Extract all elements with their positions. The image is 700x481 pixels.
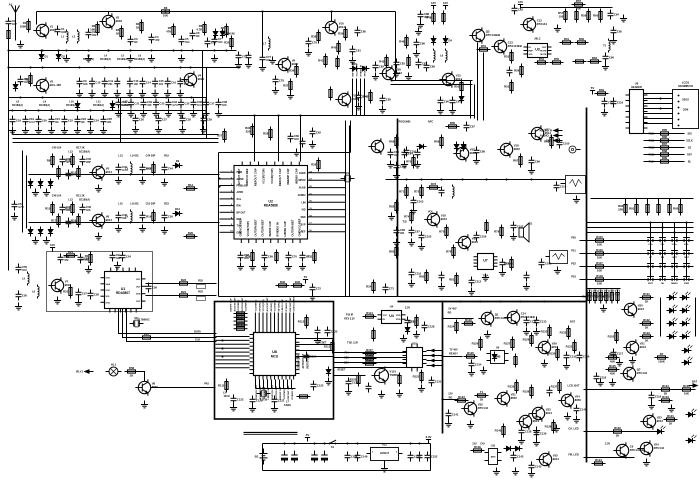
svg-text:BAT: BAT — [692, 380, 698, 384]
svg-text:RDA5807: RDA5807 — [116, 291, 130, 295]
wire — [254, 313, 256, 329]
svg-text:VID: VID — [302, 209, 306, 212]
resistor key pullup — [646, 202, 649, 216]
svg-text:10U: 10U — [294, 137, 299, 141]
ground — [602, 63, 609, 70]
capacitor C52 — [310, 284, 322, 294]
capacitor C57 — [260, 54, 272, 64]
svg-text:BC180(A): BC180(A) — [12, 104, 23, 107]
svg-text:C85: C85 — [386, 98, 391, 102]
MCU U8 — [250, 329, 300, 380]
capacitor C82 — [394, 162, 407, 172]
pin labels bottom inside — [239, 218, 302, 236]
ground — [95, 233, 102, 240]
node junction — [486, 179, 488, 181]
svg-text:R130: R130 — [549, 352, 556, 356]
svg-text:R54: R54 — [539, 57, 545, 61]
wire — [443, 318, 474, 320]
power label 3V3 — [605, 442, 611, 446]
wire — [591, 198, 694, 200]
svg-text:DTC144: DTC144 — [654, 446, 665, 450]
transistor Q16 — [497, 141, 520, 157]
resistor R32 — [263, 127, 272, 141]
resistor R128 — [523, 333, 533, 347]
svg-text:R35: R35 — [224, 41, 230, 45]
node junction — [650, 222, 652, 224]
wire — [287, 380, 289, 389]
inductor label L10 — [66, 100, 77, 107]
node junction — [442, 318, 444, 320]
ground — [314, 337, 321, 344]
svg-text:R28: R28 — [263, 132, 269, 136]
wire — [427, 350, 443, 352]
ground — [261, 263, 268, 270]
svg-text:10K: 10K — [597, 256, 602, 260]
svg-text:0.1U: 0.1U — [197, 103, 203, 107]
switch key label — [661, 283, 665, 285]
capacitor midrow — [141, 99, 153, 109]
svg-text:VCOREF(1): VCOREF(1) — [246, 299, 248, 311]
capacitor C109 — [346, 378, 359, 388]
resistor R63 — [593, 9, 602, 23]
wire — [587, 288, 621, 290]
ground — [43, 237, 50, 244]
switch key — [682, 238, 692, 243]
resistor R108 — [680, 384, 694, 396]
node junction — [38, 110, 40, 112]
wire — [206, 68, 208, 139]
node junction — [108, 50, 110, 52]
ground — [410, 207, 417, 214]
node labels P1x — [344, 352, 349, 365]
switch key label — [674, 270, 676, 272]
svg-text:C135: C135 — [570, 355, 577, 359]
svg-text:R59: R59 — [581, 14, 587, 18]
svg-text:AFTOUT DET: AFTOUT DET — [302, 353, 305, 368]
svg-text:SN-MMBC03: SN-MMBC03 — [678, 85, 693, 88]
pin label — [299, 170, 313, 175]
svg-text:X1: X1 — [346, 171, 350, 175]
svg-text:9014: 9014 — [470, 151, 477, 155]
capacitor C30 — [12, 201, 24, 211]
svg-text:R58: R58 — [129, 366, 135, 370]
svg-text:8550: 8550 — [511, 396, 518, 400]
svg-text:C106: C106 — [480, 235, 487, 239]
svg-text:RO: RO — [448, 312, 452, 315]
svg-text:DN: DN — [661, 257, 665, 259]
wire — [263, 380, 265, 389]
capacitor C17 — [177, 78, 189, 88]
svg-text:R52: R52 — [198, 279, 203, 283]
ground — [601, 109, 608, 116]
wire — [256, 388, 296, 390]
resistor R77 — [414, 185, 423, 199]
resistor R127 — [514, 354, 517, 368]
node junction — [433, 365, 435, 367]
node junction — [686, 222, 688, 224]
resistor bias — [47, 154, 54, 168]
svg-text:C129: C129 — [352, 381, 359, 385]
node junction — [278, 115, 280, 117]
resistor R79 — [404, 210, 413, 224]
resistor key pullup — [629, 202, 638, 216]
connector arrow — [431, 364, 435, 367]
wire — [12, 129, 14, 135]
ground — [178, 55, 185, 62]
capacitor C87 — [511, 222, 524, 232]
resistor — [65, 202, 74, 216]
capacitor C62 — [373, 62, 385, 72]
svg-text:BC180(A): BC180(A) — [134, 58, 145, 61]
ground — [132, 126, 139, 133]
resistor R124 — [464, 351, 478, 358]
LED indicator — [667, 331, 678, 339]
resistor R41 — [311, 30, 320, 44]
svg-text:R46: R46 — [399, 40, 405, 44]
svg-text:22P: 22P — [86, 160, 91, 164]
svg-text:R73: R73 — [431, 182, 437, 186]
svg-text:5V: 5V — [304, 275, 308, 279]
resistor network — [234, 316, 248, 323]
resistor R42 — [338, 27, 347, 41]
resistor R48 — [363, 90, 372, 104]
capacitor C4 — [149, 34, 160, 44]
resistor R134 — [475, 390, 489, 402]
ground — [245, 61, 252, 68]
ground — [76, 90, 83, 97]
ground — [573, 416, 580, 423]
resistor key row — [593, 235, 607, 247]
capacitor CE3 — [311, 451, 317, 463]
svg-text:R91: R91 — [629, 207, 635, 211]
svg-text:3.3V: 3.3V — [426, 435, 432, 439]
capacitor C89 — [539, 259, 552, 269]
ground — [272, 87, 279, 94]
svg-text:R72: R72 — [414, 190, 420, 194]
ground — [202, 110, 209, 117]
svg-text:C96: C96 — [609, 56, 614, 60]
svg-text:PWR: PWR — [684, 283, 690, 285]
svg-text:REFOUT CAP: REFOUT CAP — [289, 297, 292, 312]
ground — [85, 55, 92, 62]
wire — [308, 179, 346, 181]
ground — [249, 263, 256, 270]
node junction — [20, 97, 22, 99]
ground — [161, 179, 168, 186]
pin label — [231, 217, 242, 221]
node junction — [442, 399, 444, 401]
pin label — [231, 177, 244, 181]
resistor R52 — [442, 11, 445, 25]
wire — [244, 432, 298, 434]
diode — [28, 227, 33, 237]
capacitor C99 — [649, 392, 662, 402]
wire — [580, 253, 694, 255]
ground — [165, 110, 172, 117]
node label FM_LED — [568, 453, 579, 457]
capacitor C25 — [75, 116, 87, 126]
pin label — [231, 204, 241, 208]
wire — [13, 138, 219, 140]
svg-text:T101 3.3V: T101 3.3V — [347, 342, 358, 345]
ground — [541, 360, 548, 367]
resistor R58 — [550, 57, 564, 64]
svg-text:R40: R40 — [331, 46, 337, 50]
svg-text:DATA: DATA — [194, 330, 201, 334]
svg-text:10K0B: 10K0B — [80, 258, 89, 262]
node junction — [433, 360, 435, 362]
node junction — [42, 67, 44, 69]
capacitor C8 — [18, 76, 31, 86]
node junction — [41, 50, 43, 52]
ground — [408, 239, 415, 246]
svg-text:R51: R51 — [481, 44, 487, 48]
resistor R8 — [221, 24, 228, 38]
wire — [26, 156, 28, 229]
audio amp U7 — [474, 254, 498, 270]
ground — [32, 189, 39, 196]
wire — [29, 174, 220, 176]
pin labels MCU bottom — [256, 384, 294, 399]
ground — [418, 243, 425, 250]
svg-text:R32: R32 — [280, 280, 286, 284]
capacitor C95 — [602, 98, 615, 108]
resistor R87 — [389, 200, 398, 214]
ground — [445, 420, 452, 427]
crystal X1 — [341, 171, 355, 182]
ground — [355, 103, 362, 110]
resistor R37 — [366, 280, 375, 294]
svg-text:REFOUT CAP: REFOUT CAP — [278, 168, 282, 186]
svg-text:4.7K: 4.7K — [196, 28, 202, 32]
LCD module LCD1 — [669, 81, 699, 129]
resistor R130 — [566, 340, 576, 354]
ground — [553, 425, 560, 432]
wire — [216, 355, 250, 357]
node junction — [531, 179, 533, 181]
svg-text:A1: A1 — [9, 3, 13, 7]
node junction — [8, 67, 10, 69]
svg-text:AVDD: AVDD — [299, 172, 306, 175]
svg-text:C78: C78 — [279, 79, 284, 83]
inductor label L12 — [120, 100, 131, 107]
transistor Q26 — [372, 367, 400, 385]
ground — [378, 391, 385, 398]
svg-text:R66: R66 — [434, 140, 440, 144]
svg-text:104: 104 — [185, 40, 190, 44]
svg-text:R36: R36 — [289, 69, 295, 73]
wire — [662, 223, 664, 281]
resistor R51 — [426, 11, 435, 25]
svg-text:8050: 8050 — [575, 398, 582, 402]
svg-text:U12: U12 — [382, 443, 387, 447]
svg-text:R124: R124 — [662, 384, 669, 388]
ground — [127, 110, 134, 117]
svg-text:C141: C141 — [452, 413, 459, 417]
capacitor C14 — [140, 78, 152, 88]
transistor Q27 — [478, 310, 509, 326]
svg-text:C10: C10 — [96, 81, 101, 85]
wire — [644, 113, 669, 115]
inductor label L11 — [93, 100, 104, 107]
transistor Q37 — [453, 145, 476, 161]
IC U10 — [403, 342, 427, 372]
node junction — [442, 356, 444, 358]
svg-text:C112: C112 — [475, 280, 482, 284]
resistor R112 — [592, 458, 606, 465]
label scatter IF2 — [118, 202, 169, 206]
switch key — [646, 251, 656, 256]
resistor R133 — [455, 395, 469, 402]
resistor R106 — [655, 352, 669, 364]
capacitor C49 — [262, 252, 274, 262]
wire — [262, 313, 264, 329]
wire — [427, 355, 443, 357]
svg-text:C99: C99 — [535, 160, 540, 164]
node label — [534, 37, 540, 41]
inductor label row L3 — [83, 54, 94, 61]
svg-text:REFOUT CAP: REFOUT CAP — [253, 168, 257, 186]
node junction — [441, 179, 443, 181]
svg-text:1N4148: 1N4148 — [226, 32, 236, 36]
ground — [533, 328, 540, 335]
node labels IR — [344, 314, 355, 321]
svg-text:C57: C57 — [82, 292, 87, 296]
svg-text:R112: R112 — [298, 320, 305, 324]
ground — [211, 55, 218, 62]
capacitor midrow — [153, 99, 165, 109]
wire — [216, 343, 250, 345]
capacitor C119 — [534, 429, 547, 439]
capacitor C45 — [415, 149, 421, 159]
resistor R57 — [535, 57, 549, 64]
node junction — [262, 11, 264, 13]
resistor network — [234, 312, 248, 315]
node junction — [151, 50, 153, 52]
svg-text:C140: C140 — [580, 408, 587, 412]
svg-text:C37: C37 — [209, 102, 214, 106]
svg-text:D4: D4 — [449, 39, 453, 43]
resistor R9 — [25, 73, 32, 87]
svg-text:R34: R34 — [366, 285, 372, 289]
battery B1 — [255, 449, 268, 465]
transistor Q23 — [640, 413, 663, 429]
ground — [533, 427, 540, 434]
resistor R135 — [508, 380, 518, 394]
LED indicator — [667, 318, 678, 326]
wire — [647, 199, 649, 202]
svg-text:R41: R41 — [318, 59, 324, 63]
svg-text:R14: R14 — [188, 183, 194, 187]
wire — [308, 194, 346, 196]
LED indicator — [667, 292, 678, 300]
svg-text:OK: OK — [661, 283, 665, 285]
svg-text:R118: R118 — [366, 353, 373, 357]
capacitor Cant — [6, 18, 17, 28]
svg-text:C69: C69 — [268, 255, 273, 259]
svg-text:10K: 10K — [597, 282, 602, 286]
pin label — [301, 201, 312, 205]
node junction — [410, 443, 412, 445]
node junction — [219, 178, 221, 180]
capacitor C112 — [524, 317, 537, 327]
svg-text:MPXO: MPXO — [298, 179, 305, 182]
wire — [285, 313, 287, 329]
svg-text:C152: C152 — [431, 455, 438, 459]
resistor R111 — [611, 426, 625, 438]
svg-text:1N: 1N — [134, 40, 137, 44]
switch key label — [661, 257, 665, 259]
svg-text:100K: 100K — [658, 360, 665, 364]
svg-text:DTC144: DTC144 — [637, 371, 648, 375]
svg-text:472: 472 — [64, 258, 69, 262]
svg-text:GNDVCO REF: GNDVCO REF — [272, 384, 274, 399]
ground — [127, 55, 134, 62]
ground — [48, 127, 55, 134]
svg-text:104: 104 — [218, 40, 223, 44]
ground — [309, 293, 316, 300]
svg-text:R123: R123 — [465, 318, 472, 322]
pin label — [298, 179, 312, 183]
capacitor — [66, 218, 78, 228]
node junction — [660, 98, 662, 100]
capacitor CE4 — [321, 451, 327, 463]
svg-text:C128: C128 — [428, 325, 435, 329]
ground — [512, 468, 519, 475]
svg-text:AGND: AGND — [237, 178, 244, 181]
capacitor C2 — [86, 29, 97, 39]
node label BAT2 — [570, 321, 575, 324]
ground — [473, 157, 480, 164]
inductor L26 — [434, 49, 436, 63]
svg-text:R115: R115 — [596, 235, 603, 239]
svg-text:12V: 12V — [431, 1, 436, 5]
ground — [87, 127, 94, 134]
ground — [285, 263, 292, 270]
svg-text:R118: R118 — [596, 274, 603, 278]
resistor key row — [593, 274, 607, 286]
svg-text:C100: C100 — [563, 142, 570, 146]
resistor Rant — [7, 28, 10, 42]
svg-text:R132: R132 — [643, 318, 650, 322]
svg-text:AGCEXT DET: AGCEXT DET — [233, 297, 236, 312]
svg-text:22K: 22K — [618, 208, 623, 212]
wire — [360, 79, 362, 116]
pin label — [231, 197, 242, 201]
capacitor C118 — [519, 427, 532, 437]
wire — [296, 356, 334, 358]
ground — [413, 331, 420, 338]
switch key label — [672, 244, 678, 246]
svg-text:3.3V: 3.3V — [605, 442, 611, 446]
svg-text:U3: U3 — [535, 48, 540, 52]
resistor R40 — [283, 79, 292, 93]
svg-text:AVDD: AVDD — [237, 191, 244, 194]
switch key — [682, 264, 692, 269]
resistor R66 — [575, 37, 589, 44]
switch key — [670, 251, 680, 256]
svg-text:R133: R133 — [560, 331, 567, 335]
svg-text:U7: U7 — [483, 259, 488, 263]
ground — [249, 405, 256, 412]
svg-text:R74: R74 — [404, 215, 410, 219]
resistor R74 — [389, 135, 398, 149]
wire — [391, 80, 473, 82]
LED indicator — [680, 305, 691, 313]
wire — [308, 209, 346, 211]
capacitor C110 — [366, 383, 372, 393]
capacitor C67 — [416, 59, 428, 69]
